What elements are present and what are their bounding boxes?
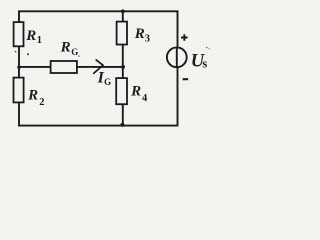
svg-text:R: R xyxy=(60,40,71,56)
svg-text:s: s xyxy=(202,57,207,71)
svg-text:G: G xyxy=(104,77,111,87)
svg-text:4: 4 xyxy=(142,93,148,104)
svg-text:R: R xyxy=(134,26,145,42)
svg-text:3: 3 xyxy=(145,34,150,45)
svg-text:2: 2 xyxy=(39,97,44,108)
svg-text:R: R xyxy=(25,28,36,44)
svg-text:G: G xyxy=(71,47,78,57)
svg-text:R: R xyxy=(27,87,38,103)
svg-text:R: R xyxy=(130,83,141,99)
svg-text:1: 1 xyxy=(37,35,42,46)
